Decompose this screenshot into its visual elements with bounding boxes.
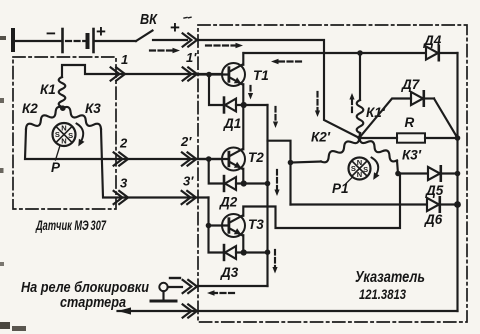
svg-text:Р: Р — [51, 160, 61, 175]
svg-text:К3: К3 — [85, 101, 101, 116]
svg-text:Т2: Т2 — [248, 150, 264, 165]
svg-text:S: S — [55, 130, 60, 139]
svg-text:Д6: Д6 — [424, 212, 443, 227]
svg-text:Указатель: Указатель — [355, 269, 425, 286]
svg-text:1′: 1′ — [186, 50, 197, 65]
svg-text:S: S — [363, 165, 368, 174]
svg-text:К3′: К3′ — [402, 148, 422, 163]
svg-text:+: + — [170, 18, 180, 37]
svg-text:2: 2 — [119, 136, 128, 151]
svg-text:N: N — [61, 136, 66, 145]
svg-text:−: − — [46, 24, 56, 43]
svg-text:121.3813: 121.3813 — [359, 287, 406, 302]
svg-text:Т3: Т3 — [248, 217, 264, 232]
svg-text:3′: 3′ — [183, 174, 194, 189]
svg-text:К2: К2 — [22, 101, 38, 116]
svg-text:Д2: Д2 — [219, 195, 238, 210]
svg-text:ВК: ВК — [140, 11, 158, 28]
svg-text:Р1: Р1 — [332, 181, 349, 196]
svg-text:Д4: Д4 — [423, 33, 442, 48]
svg-text:S: S — [351, 164, 356, 173]
svg-text:Д5: Д5 — [425, 183, 444, 198]
svg-text:N: N — [357, 158, 362, 167]
svg-text:N: N — [357, 170, 362, 179]
svg-text:2′: 2′ — [180, 134, 192, 149]
svg-text:3: 3 — [120, 176, 128, 191]
svg-text:К2′: К2′ — [311, 130, 331, 145]
svg-text:S: S — [68, 131, 73, 140]
svg-text:N: N — [61, 123, 66, 132]
svg-text:Д3: Д3 — [220, 265, 239, 280]
svg-text:1: 1 — [121, 52, 128, 67]
svg-text:К1: К1 — [40, 82, 56, 97]
svg-text:Д7: Д7 — [401, 77, 421, 92]
svg-text:Т1: Т1 — [253, 68, 269, 83]
svg-text:+: + — [96, 22, 106, 41]
svg-text:Датчик МЭ 307: Датчик МЭ 307 — [35, 217, 106, 233]
svg-text:стартера: стартера — [60, 294, 126, 311]
svg-text:Д1: Д1 — [223, 116, 241, 131]
svg-text:R: R — [405, 115, 415, 130]
